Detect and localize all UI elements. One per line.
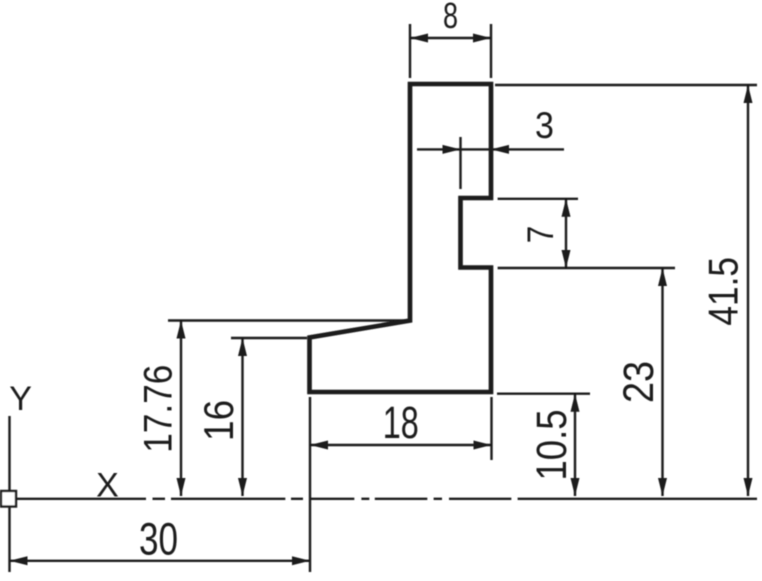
svg-text:41.5: 41.5 (701, 257, 748, 326)
svg-text:8: 8 (443, 0, 458, 36)
svg-text:23: 23 (614, 361, 663, 403)
svg-text:18: 18 (383, 399, 419, 448)
svg-text:16: 16 (196, 400, 243, 441)
svg-text:10.5: 10.5 (528, 409, 575, 480)
svg-text:17.76: 17.76 (135, 365, 180, 453)
svg-text:X: X (96, 467, 119, 505)
svg-text:Y: Y (9, 380, 32, 418)
svg-text:7: 7 (521, 226, 562, 243)
svg-text:30: 30 (139, 513, 178, 564)
svg-text:3: 3 (535, 105, 554, 147)
